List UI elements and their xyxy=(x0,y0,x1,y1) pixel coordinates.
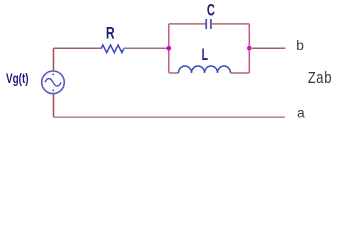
svg-text:L: L xyxy=(202,46,208,64)
wire: parallel block right vertical xyxy=(248,24,250,73)
svg-text:Vg(t): Vg(t) xyxy=(6,70,29,86)
inductor L1 coil xyxy=(179,66,231,73)
svg-text:a: a xyxy=(297,107,305,123)
capacitor C1 plates xyxy=(205,19,207,29)
wire: top-left horizontal from source corner to resistor xyxy=(54,47,102,49)
svg-text:Zab: Zab xyxy=(308,70,332,89)
wire: bottom branch right of inductor xyxy=(231,72,250,74)
wire: top branch left of capacitor xyxy=(169,23,206,25)
wire: left vertical above source xyxy=(53,48,55,71)
wire: right junction to terminal b xyxy=(249,47,285,49)
wire: left vertical below source xyxy=(53,94,55,118)
svg-text:b: b xyxy=(296,39,304,55)
source sine wave xyxy=(45,79,61,87)
wire: resistor to left junction xyxy=(124,47,169,49)
wire: bottom branch left of inductor xyxy=(169,72,179,74)
junction node left dot xyxy=(167,46,172,51)
resistor R1 zigzag xyxy=(101,45,124,53)
junction node right dot xyxy=(247,46,252,51)
svg-text:C: C xyxy=(207,1,215,19)
svg-text:R: R xyxy=(106,24,115,42)
source polarity mark top xyxy=(52,74,54,76)
wire: parallel block left vertical xyxy=(168,24,170,73)
source U1 circle xyxy=(42,71,65,94)
source polarity mark bottom xyxy=(52,89,54,91)
wire: bottom horizontal to terminal a xyxy=(54,116,286,118)
wire: top branch right of capacitor xyxy=(211,23,249,25)
